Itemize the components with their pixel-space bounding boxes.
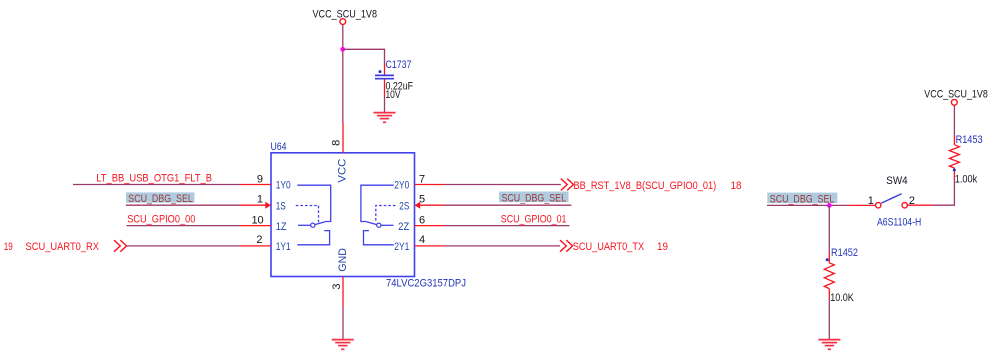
wire LT_BB_USB_OTG1_FLT_B [73, 184, 241, 186]
resistor R1453 [949, 134, 982, 186]
svg-text:SCU_UART0_RX: SCU_UART0_RX [26, 241, 100, 253]
SW4 pin2 stub [908, 204, 933, 206]
svg-text:SCU_DBG_SEL: SCU_DBG_SEL [128, 193, 193, 205]
svg-text:2S: 2S [399, 200, 409, 212]
svg-text:1S: 1S [276, 200, 286, 212]
wire cap to ground [384, 97, 386, 112]
svg-text:19: 19 [657, 241, 668, 253]
switch SW4 [868, 175, 922, 228]
wire SCU_UART0_RX [127, 245, 241, 247]
pin 4 stub [415, 245, 445, 247]
ground (capacitor) [374, 113, 396, 123]
svg-text:10: 10 [251, 214, 263, 226]
wire SW4 to R1453 [933, 178, 955, 205]
wire pin3 to ground [342, 307, 344, 339]
off-page chevron RX [114, 240, 127, 252]
svg-text:18: 18 [731, 180, 742, 192]
wire junction to R1452 [828, 205, 830, 253]
wire SCU_DBG_SEL right [445, 204, 572, 206]
wire R1453 to VCC [953, 105, 955, 136]
power symbol VCC_SCU_1V8 (top) [313, 8, 378, 24]
op chip body U64 [271, 153, 415, 277]
svg-text:2Z: 2Z [398, 221, 409, 233]
internal switch 1 contact Y1 [297, 231, 329, 245]
wire SCU_DBG_SEL to SW4 [767, 204, 849, 206]
pin 9 stub [241, 184, 272, 186]
svg-text:4: 4 [419, 234, 425, 246]
pin 8 VCC stub [342, 123, 344, 153]
svg-text:6: 6 [419, 214, 425, 226]
internal switch 2 Z line [381, 224, 394, 226]
wire SCU_GPIO0_01 [445, 225, 570, 227]
svg-text:U64: U64 [271, 141, 287, 153]
svg-text:R1452: R1452 [831, 247, 858, 259]
power symbol VCC_SCU_1V8 (right) [924, 89, 988, 106]
ground (R1452) [818, 340, 840, 350]
svg-text:VCC_SCU_1V8: VCC_SCU_1V8 [313, 8, 378, 20]
internal switch 2 select dashed [376, 206, 396, 223]
internal switch 2 arm [366, 222, 376, 225]
internal switch 1 Z line [298, 224, 311, 226]
pin 1 stub [241, 204, 267, 206]
pin 5 arrow [415, 202, 421, 209]
junction [340, 47, 345, 52]
pin 2 stub [241, 245, 272, 247]
wire to capacitor [343, 49, 385, 64]
internal switch 2 contact Y0 [361, 185, 394, 221]
off-page chevron TX [560, 240, 573, 252]
svg-text:2Y1: 2Y1 [394, 241, 409, 253]
pin 3 GND stub [342, 277, 344, 307]
svg-text:1.00k: 1.00k [955, 174, 978, 186]
svg-text:A6S1104-H: A6S1104-H [877, 216, 921, 228]
resistor R1452 [824, 247, 858, 304]
pin 10 stub [241, 225, 272, 227]
pin 7 stub [415, 184, 445, 186]
svg-text:C1737: C1737 [386, 59, 412, 71]
internal switch 2 contact Y1 [364, 231, 394, 245]
svg-text:1Z: 1Z [276, 221, 287, 233]
internal switch 1 select dashed [296, 206, 319, 223]
wire SCU_DBG_SEL [126, 204, 241, 206]
wire SCU_GPIO0_00 [127, 225, 241, 227]
svg-text:LT_BB_USB_OTG1_FLT_B: LT_BB_USB_OTG1_FLT_B [96, 173, 212, 185]
svg-text:SCU_UART0_TX: SCU_UART0_TX [573, 241, 645, 253]
wire R1452 to ground [828, 299, 830, 340]
svg-text:9: 9 [257, 173, 263, 185]
svg-text:GND: GND [337, 248, 349, 272]
ground (chip) [332, 340, 354, 350]
svg-text:SW4: SW4 [886, 175, 907, 187]
net label SCU_DBG_SEL (highlight, chip right) [499, 192, 569, 205]
svg-text:1Y0: 1Y0 [276, 180, 291, 192]
svg-text:VCC: VCC [336, 159, 348, 183]
svg-text:SCU_DBG_SEL: SCU_DBG_SEL [502, 193, 567, 205]
internal switch 1 contact Y0 [297, 185, 330, 221]
pin 1 arrow [265, 202, 271, 209]
pin 6 stub [415, 225, 445, 227]
svg-text:10V: 10V [386, 89, 402, 101]
svg-text:SCU_DBG_SEL: SCU_DBG_SEL [770, 193, 835, 205]
SW4 pin1 stub [849, 204, 875, 206]
svg-text:1: 1 [257, 194, 263, 206]
wire SCU_UART0_TX [445, 245, 561, 247]
svg-text:8: 8 [331, 140, 343, 146]
wire VCC vertical [342, 25, 344, 123]
svg-text:5: 5 [419, 194, 425, 206]
svg-text:2Y0: 2Y0 [394, 180, 409, 192]
net label SCU_DBG_SEL (highlight, right section) [767, 193, 837, 206]
internal switch 2 pivot [377, 223, 381, 227]
svg-text:SCU_GPIO0_00: SCU_GPIO0_00 [127, 214, 195, 226]
svg-text:74LVC2G3157DPJ: 74LVC2G3157DPJ [386, 278, 466, 290]
svg-text:R1453: R1453 [956, 134, 983, 146]
svg-text:SCU_GPIO0_01: SCU_GPIO0_01 [501, 214, 567, 226]
svg-text:1: 1 [868, 195, 874, 207]
pin 5 stub [419, 204, 445, 206]
wire BB_RST [445, 184, 561, 186]
junction R1452 tap [827, 203, 832, 208]
svg-text:BB_RST_1V8_B(SCU_GPIO0_01): BB_RST_1V8_B(SCU_GPIO0_01) [574, 180, 717, 192]
svg-text:3: 3 [331, 283, 343, 289]
svg-text:1Y1: 1Y1 [276, 241, 291, 253]
svg-text:10.0K: 10.0K [830, 292, 854, 304]
capacitor C1737 [375, 59, 413, 101]
net label SCU_DBG_SEL (highlight) [126, 192, 195, 204]
off-page chevron BB_RST [561, 179, 574, 191]
internal switch 1 arm [315, 222, 325, 225]
svg-text:2: 2 [256, 234, 262, 246]
svg-text:VCC_SCU_1V8: VCC_SCU_1V8 [924, 89, 988, 101]
svg-text:19: 19 [4, 241, 13, 253]
internal switch 1 pivot [311, 223, 315, 227]
svg-text:7: 7 [419, 173, 425, 185]
